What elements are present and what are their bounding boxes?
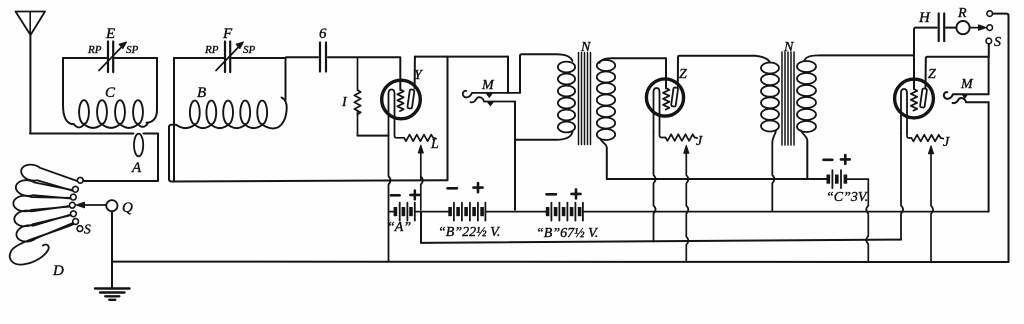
svg-text:D: D: [52, 263, 64, 279]
tube Y grid: [397, 90, 403, 112]
tube Z1 plate: [671, 87, 678, 106]
tube Y plate: [407, 89, 414, 108]
wire Z2 grid lead up to H line: [914, 28, 937, 89]
phone R: [956, 21, 969, 34]
transformer T2 core: [782, 52, 794, 145]
tube Z2 filament: [901, 89, 907, 133]
battery A cells: [389, 203, 449, 221]
rheostat L: [395, 134, 437, 141]
svg-text:Z: Z: [928, 67, 936, 82]
svg-text:Z: Z: [679, 67, 687, 82]
antenna: [16, 12, 46, 36]
tube Y envelope: [382, 80, 421, 119]
switch S contact bottom: [986, 38, 992, 44]
node ground bus (bottom): [112, 261, 1008, 263]
wire loop A to corner: [83, 134, 158, 182]
wire G to grid of Y: [328, 57, 400, 90]
wire Y plate lead: [414, 57, 416, 88]
capacitor H: [939, 14, 945, 42]
svg-text:6: 6: [319, 26, 327, 42]
svg-text:SP: SP: [126, 44, 139, 56]
svg-text:R: R: [957, 6, 967, 21]
wire Z1 filament left leg to A+ bus (hops): [654, 132, 656, 242]
wire H to R: [946, 27, 956, 29]
label B67 plus: [572, 189, 581, 198]
wire T2 secondary top to Z2 grid: [819, 54, 914, 56]
rheostat J2: [907, 133, 943, 141]
tube Z1 grid: [663, 88, 669, 110]
svg-text:S: S: [84, 222, 91, 237]
capacitor E (variable): [99, 42, 127, 73]
wire plate line down to jack: [507, 57, 509, 93]
label B67 minus: [547, 193, 556, 196]
svg-text:B: B: [197, 85, 206, 101]
svg-text:RP: RP: [204, 44, 219, 56]
wire Y filament left leg to A- and ground: [389, 134, 391, 262]
wire antenna horizontal to loop A: [30, 133, 134, 135]
jack M1 contacts: [487, 94, 494, 106]
wire T1 secondary top to Z1 grid: [613, 58, 667, 88]
svg-text:H: H: [918, 10, 931, 26]
wire T2 secondary bottom to C- bus: [806, 141, 808, 179]
coil B: [169, 98, 287, 129]
svg-text:J: J: [943, 135, 950, 150]
svg-text:“C”3V.: “C”3V.: [826, 190, 868, 205]
node C- bus: [607, 178, 827, 180]
svg-text:A: A: [131, 160, 142, 176]
wire T2 primary bottom to B+ bus (hop at C- bus): [772, 143, 774, 212]
node plate line of Y: [415, 56, 508, 58]
arrow R to switch: [970, 27, 981, 29]
rheostat J1: [660, 132, 698, 141]
svg-text:“B”67½ V.: “B”67½ V.: [536, 226, 598, 241]
battery B22 cells: [448, 203, 546, 221]
label B22 minus: [448, 187, 457, 190]
battery C cells: [827, 170, 869, 188]
wire S bottom contact to plate line: [988, 44, 990, 57]
jack M2 upper spring: [944, 92, 989, 99]
wire tank2 top edge: [174, 57, 286, 59]
wire M2 upper spring riser from plate line: [988, 57, 990, 95]
wire tank1 right edge: [147, 58, 158, 123]
svg-text:M: M: [481, 78, 495, 93]
coil D taps: [77, 177, 83, 183]
wire bus riser to plate line: [447, 57, 449, 181]
jack M1 upper spring: [463, 91, 520, 98]
tube Y filament: [389, 90, 395, 135]
svg-text:C: C: [105, 85, 116, 101]
svg-text:“B”22½ V.: “B”22½ V.: [438, 225, 500, 240]
wire L wiper to A+ (hop at bus): [421, 176, 423, 209]
tube Z2 envelope: [895, 79, 934, 118]
svg-text:J: J: [696, 134, 703, 149]
label A battery minus: [391, 194, 400, 197]
wire tank1 left edge: [63, 58, 74, 124]
coil C: [74, 100, 148, 128]
svg-text:S: S: [994, 35, 1001, 50]
wire S top contact to right edge down to ground bus: [993, 14, 1009, 262]
tube Z2 grid: [911, 89, 917, 111]
switch S contact middle: [987, 25, 993, 31]
capacitor G: [320, 43, 326, 72]
wire tank2 to G: [286, 56, 319, 59]
svg-text:E: E: [105, 26, 115, 42]
wire tank2 left edge (F return to bus): [173, 58, 175, 182]
node A+ bus: [421, 240, 901, 243]
svg-text:Q: Q: [122, 200, 133, 216]
wire M2 lower spring down to B+ bus: [988, 102, 990, 211]
label B22 plus: [474, 183, 483, 192]
wire C+ down to ground bus (hops): [866, 179, 868, 262]
svg-text:SP: SP: [243, 44, 256, 56]
label A battery plus: [410, 191, 419, 200]
battery B67 cells: [546, 203, 989, 221]
jack M2 lower spring: [953, 98, 989, 103]
svg-text:M: M: [960, 77, 974, 92]
rheostat J1 wiper arrow: [684, 145, 689, 153]
resistor I (grid leak): [354, 57, 360, 135]
transformer T1 core: [579, 53, 591, 145]
capacitor F (variable): [216, 42, 244, 73]
wire Z2 plate lead and line to jack M2: [926, 57, 989, 88]
jack M2 contact: [963, 95, 968, 98]
wire tank1 top edge: [63, 57, 157, 59]
node bus grid-return (left bus to x448): [172, 180, 448, 181]
wire I to filament leg: [358, 135, 389, 137]
svg-text:F: F: [222, 26, 233, 42]
coil D petals: [10, 165, 78, 265]
jack M1 lower spring: [471, 97, 515, 102]
wire jack M1 to T1 primary top: [520, 54, 557, 93]
wire jack M1 lower to B+22 tap and T1 primary bottom: [515, 102, 556, 210]
wire T1 secondary bottom to C- bus: [606, 148, 608, 179]
transformer T1 secondary: [597, 58, 615, 148]
transformer T1 primary: [556, 54, 575, 140]
rheostat J2 wiper arrow: [928, 146, 933, 154]
tube Z1 filament: [654, 88, 660, 132]
wire coil B left end down to bus: [169, 127, 172, 182]
label C battery plus: [841, 155, 850, 164]
svg-text:RP: RP: [87, 44, 102, 56]
label C battery minus: [824, 159, 833, 162]
transformer T2 secondary: [797, 55, 819, 141]
svg-text:L: L: [430, 137, 439, 152]
tube Z1 envelope: [646, 79, 683, 116]
wire antenna lead down: [29, 35, 31, 134]
svg-text:“A”: “A”: [387, 220, 411, 235]
wire Q to ground: [111, 211, 113, 288]
transformer T2 primary: [761, 63, 779, 144]
tube Z2 plate: [920, 88, 927, 107]
wire tank2 right edge: [285, 58, 287, 100]
wire Z1 plate lead and plate line to T2: [678, 56, 770, 87]
wire Z2 filament left leg to A+ bus end (hop): [901, 133, 903, 240]
rheostat L wiper arrow: [420, 153, 422, 181]
switch S contact top: [987, 11, 993, 17]
coil A (single loop): [134, 134, 143, 157]
switch arm Q: [106, 200, 117, 211]
svg-text:N: N: [783, 40, 794, 55]
wire A+ jog down to A+ bus: [420, 212, 422, 243]
ground: [95, 289, 130, 300]
svg-text:N: N: [580, 40, 591, 55]
